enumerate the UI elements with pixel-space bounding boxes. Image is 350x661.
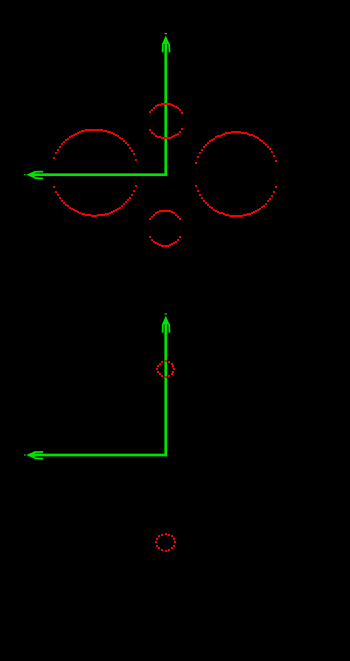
figure-1 z-axis arrowhead (points up) — [162, 36, 170, 53]
dotted circle: figure-2 top lobe (tiny, on z-axis above origin) — [156, 360, 175, 378]
figure-2 z-axis arrow tip mark — [165, 313, 167, 314]
dotted circle: figure-1 right lobe (large, on x-axis) — [195, 131, 277, 217]
wire: figure-2 vertical z-axis line — [164, 322, 167, 456]
wire: figure-1 horizontal x-axis line — [31, 173, 167, 176]
figure-2 z-axis arrowhead (points up) — [162, 316, 170, 333]
wire: figure-2 horizontal x-axis line — [31, 454, 167, 457]
dotted circle: figure-2 bottom lobe (tiny, on z-axis below origin) — [155, 533, 176, 552]
figure-1 x-axis arrow tip mark — [24, 174, 25, 175]
wire: figure-1 vertical z-axis line — [164, 42, 167, 176]
figure-1 x-axis arrowhead (points left) — [26, 171, 43, 179]
dotted circle: figure-1 bottom lobe (small, on z-axis below origin) — [149, 210, 181, 247]
figure-2 x-axis arrowhead (points left) — [26, 451, 43, 459]
figure-1 z-axis arrow tip mark — [165, 33, 167, 34]
dotted circle: figure-1 left lobe (large, on x-axis) — [53, 129, 137, 217]
figure-2 x-axis arrow tip mark — [24, 454, 25, 455]
dotted circle: figure-1 top lobe (small, on z-axis above origin) — [149, 103, 183, 139]
